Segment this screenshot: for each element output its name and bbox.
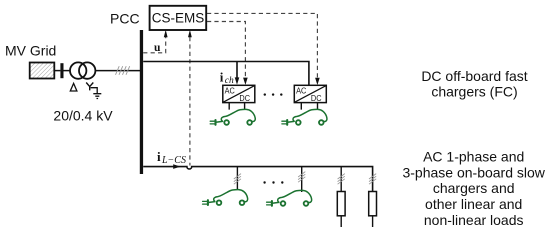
load resistor R1 <box>337 192 345 216</box>
svg-text:AC: AC <box>225 86 235 96</box>
MV grid source box (hatched) <box>30 63 55 79</box>
load resistor R2 <box>369 192 377 216</box>
PCC busbar <box>140 30 143 174</box>
EV car slow 1 <box>203 190 248 205</box>
arrow into FC1 <box>243 78 248 85</box>
svg-text:3-phase on-board slow: 3-phase on-board slow <box>402 164 545 180</box>
terminal bar <box>60 63 63 78</box>
svg-text:MV Grid: MV Grid <box>5 43 56 59</box>
dots (more FC chargers) <box>264 93 266 95</box>
3-phase ticks <box>298 172 305 183</box>
i_L-CS measurement dashed wire <box>189 37 191 166</box>
svg-text:PCC: PCC <box>110 10 140 26</box>
CS-EMS controller box U1 <box>150 6 207 30</box>
delta winding symbol <box>70 83 77 91</box>
svg-text:CS-EMS: CS-EMS <box>152 10 205 25</box>
svg-text:DC: DC <box>311 93 322 103</box>
svg-text:ch: ch <box>225 76 234 86</box>
svg-text:i: i <box>157 149 161 164</box>
node u measurement dashed wire <box>143 37 166 53</box>
converter FC1 AC/DC <box>223 85 255 103</box>
svg-text:chargers (FC): chargers (FC) <box>431 84 517 100</box>
svg-text:AC 1-phase and: AC 1-phase and <box>423 149 524 165</box>
EV car FC1 <box>210 109 255 124</box>
wire transformer to PCC bus <box>95 70 140 72</box>
svg-text:L−CS: L−CS <box>161 155 186 166</box>
dots (more slow chargers) <box>263 181 265 183</box>
FC2 output legs <box>301 103 317 110</box>
wire terminal to transformer <box>64 70 71 72</box>
svg-text:chargers and: chargers and <box>433 180 515 196</box>
arrow i_L-CS <box>173 164 180 169</box>
svg-text:DC: DC <box>239 93 250 103</box>
svg-text:AC: AC <box>296 86 306 96</box>
wye winding symbol <box>86 83 93 91</box>
wire grid box to terminal <box>54 70 60 72</box>
svg-text:non-linear loads: non-linear loads <box>424 212 524 228</box>
EV car slow 2 <box>267 190 312 205</box>
3-phase ticks <box>234 174 241 185</box>
svg-text:20/0.4 kV: 20/0.4 kV <box>53 108 113 124</box>
FC1 output legs <box>229 103 244 110</box>
linear load drop 2 ticks <box>369 174 376 185</box>
3-phase tick marks <box>116 66 130 75</box>
arrow into CS-EMS (i) <box>188 30 192 38</box>
control dashed wire to FC2 <box>207 13 317 78</box>
arrow into CS-EMS (u) <box>164 30 168 38</box>
svg-text:i: i <box>220 70 224 85</box>
load feeder wire from bus with sensor loop <box>143 167 372 192</box>
svg-text:DC off-board fast: DC off-board fast <box>421 68 527 84</box>
converter FC2 AC/DC <box>294 85 326 103</box>
3-phase ticks <box>338 174 345 185</box>
svg-text:other linear and: other linear and <box>425 196 522 212</box>
arrow i_ch <box>235 77 240 84</box>
transformer T1 <box>70 62 86 78</box>
svg-text:u: u <box>154 42 161 54</box>
linear load drop 1 <box>340 167 342 192</box>
EV car FC2 <box>282 109 327 124</box>
slow charger drop 1 <box>236 167 238 190</box>
FC feeder wire from bus <box>143 62 309 86</box>
arrow into FC2 <box>315 78 320 85</box>
FC1 drop wire <box>236 62 238 79</box>
slow charger drop 2 <box>301 167 303 192</box>
control dashed wire to FC1 <box>207 22 245 79</box>
ground <box>91 88 98 94</box>
